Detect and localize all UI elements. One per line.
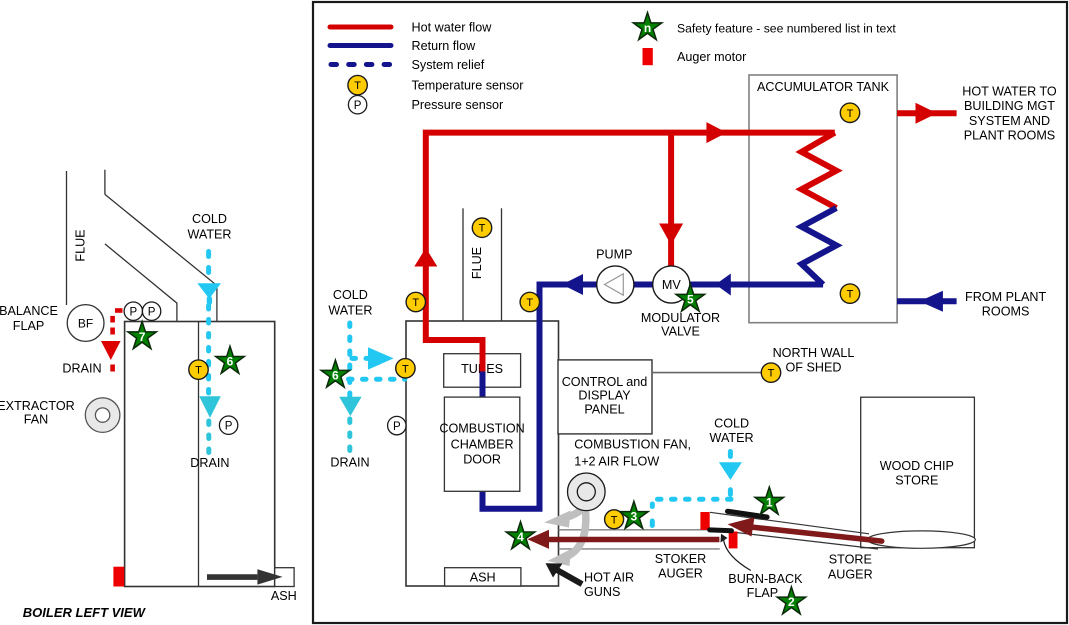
svg-text:FROM PLANT: FROM PLANT: [965, 290, 1046, 304]
svg-text:STORE: STORE: [895, 473, 938, 487]
label MODULATOR VALVE: [641, 311, 720, 339]
left view flue wall left: [66, 171, 68, 305]
pump circle: [597, 266, 634, 303]
store auger tube upper line: [710, 512, 869, 534]
svg-text:ASH: ASH: [470, 571, 496, 585]
burn-back flap red block lower: [729, 532, 738, 549]
relief dashed below arrow: [347, 419, 352, 453]
cold water dashed horizontal into boiler: [352, 356, 368, 361]
svg-text:STORE: STORE: [829, 553, 872, 567]
safety star 1: [755, 487, 784, 514]
label HOT AIR GUNS: [584, 571, 634, 600]
air flow curved arrow lower: [548, 510, 586, 566]
svg-text:CHAMBER: CHAMBER: [451, 437, 514, 451]
label EXTRACTOR FAN: [0, 399, 75, 427]
blue pipe segment through tubes box: [480, 372, 486, 399]
svg-text:T: T: [526, 297, 533, 309]
burn-back flap open position: [728, 511, 767, 517]
extractor fan: [85, 398, 120, 433]
left view internal wall: [198, 322, 200, 587]
left view flue duct outer diagonal: [105, 194, 217, 321]
svg-text:COMBUSTION: COMBUSTION: [439, 421, 524, 435]
svg-text:T: T: [402, 363, 409, 375]
svg-text:WATER: WATER: [710, 431, 754, 445]
safety star 3: [620, 501, 649, 528]
safety star 4: [506, 522, 535, 549]
svg-text:SYSTEM AND: SYSTEM AND: [969, 114, 1050, 128]
svg-text:6: 6: [332, 368, 339, 382]
svg-text:GUNS: GUNS: [584, 585, 620, 599]
svg-text:AUGER: AUGER: [828, 568, 873, 582]
tank coil hot (red zigzag): [802, 133, 837, 208]
return pipe from plant rooms: [897, 298, 957, 304]
arrowhead branch down: [659, 224, 683, 246]
svg-text:2: 2: [788, 595, 795, 609]
relief dashed vertical to stoker: [650, 504, 655, 526]
svg-text:P: P: [225, 420, 233, 432]
cold water dashed left view upper: [206, 252, 211, 273]
svg-text:PANEL: PANEL: [584, 403, 624, 417]
svg-text:WOOD CHIP: WOOD CHIP: [880, 459, 954, 473]
svg-text:FLAP: FLAP: [13, 319, 45, 333]
svg-text:DISPLAY: DISPLAY: [578, 389, 631, 403]
svg-text:BURN-BACK: BURN-BACK: [728, 572, 803, 586]
tubes box: [444, 354, 521, 388]
svg-text:1: 1: [766, 495, 773, 509]
store auger tube lower line: [710, 530, 878, 550]
cold water dashed left view through boiler: [206, 306, 211, 395]
air flow curved arrow upper: [544, 505, 587, 528]
svg-text:P: P: [393, 421, 401, 433]
hot water main pipe (boiler to tank): [426, 133, 835, 378]
svg-text:STOKER: STOKER: [655, 552, 707, 566]
hot water outlet pipe to building: [897, 110, 957, 116]
legend safety feature star n: [633, 13, 662, 40]
svg-text:BOILER LEFT VIEW: BOILER LEFT VIEW: [23, 605, 147, 620]
stoker auger tube: [559, 530, 720, 549]
left view boiler body: [125, 322, 275, 587]
svg-text:PUMP: PUMP: [596, 248, 632, 262]
T sensor tank top: [840, 103, 859, 122]
svg-text:CONTROL and: CONTROL and: [562, 375, 648, 389]
cold water arrow into boiler: [368, 347, 394, 369]
svg-text:Pressure sensor: Pressure sensor: [412, 98, 504, 112]
label HOT WATER TO BUILDING: [962, 85, 1057, 143]
svg-text:BALANCE: BALANCE: [0, 304, 58, 318]
arrowhead from plant rooms: [919, 291, 943, 312]
flue walls: [462, 208, 464, 321]
label STORE AUGER: [828, 553, 873, 582]
wood chip store box: [861, 397, 975, 548]
label WOOD CHIP STORE: [880, 459, 954, 487]
P sensors pair: [124, 302, 142, 320]
svg-text:HOT WATER TO: HOT WATER TO: [962, 85, 1057, 99]
T sensor stoker: [605, 510, 624, 529]
arrowhead hot pipe right into tank: [706, 122, 726, 143]
svg-text:4: 4: [517, 530, 524, 544]
left view flue duct inner diagonal: [105, 244, 177, 322]
label COMBUSTION CHAMBER DOOR: [439, 421, 524, 466]
sensor lead to north wall: [652, 372, 761, 374]
svg-text:5: 5: [687, 292, 694, 306]
T sensor on return pipe: [520, 292, 539, 311]
svg-text:WATER: WATER: [328, 303, 372, 317]
legend return flow line: [330, 43, 391, 48]
burn-back flap closed position: [710, 527, 732, 533]
svg-text:FLAP: FLAP: [747, 586, 779, 600]
svg-text:MV: MV: [662, 278, 681, 292]
relief dashed horizontal right: [658, 497, 732, 502]
svg-text:T: T: [195, 365, 202, 377]
safety star 7: [128, 322, 157, 349]
svg-text:ACCUMULATOR TANK: ACCUMULATOR TANK: [757, 80, 890, 94]
svg-text:Temperature sensor: Temperature sensor: [412, 79, 524, 93]
svg-text:VALVE: VALVE: [661, 324, 700, 338]
svg-text:T: T: [611, 514, 618, 526]
arrowhead hot water outlet: [916, 103, 938, 124]
legend temperature sensor symbol: [348, 75, 367, 94]
svg-text:COLD: COLD: [192, 212, 227, 226]
legend system relief dashed line: [331, 62, 390, 67]
svg-text:ROOMS: ROOMS: [982, 305, 1030, 319]
svg-text:System relief: System relief: [412, 58, 485, 72]
arrowhead return pipe at tank side: [716, 274, 731, 296]
svg-text:DOOR: DOOR: [463, 453, 501, 467]
control and display panel box: [558, 360, 652, 434]
label CONTROL and DISPLAY PANEL: [562, 375, 648, 417]
svg-text:T: T: [354, 80, 361, 92]
tank coil return (blue zigzag): [802, 208, 837, 285]
label COLD WATER right: [710, 417, 754, 445]
legend pressure sensor symbol: [348, 96, 366, 114]
combustion chamber door box: [444, 397, 519, 491]
hot pipe branch down to modulator valve: [668, 133, 674, 267]
cold water dashed below arrow right: [728, 490, 733, 495]
svg-text:BUILDING MGT: BUILDING MGT: [964, 99, 1055, 113]
arrowhead stoker auger: [527, 530, 549, 549]
label BALANCE FLAP: [0, 304, 58, 333]
safety star 6 main: [321, 360, 350, 387]
relief arrow down left view: [199, 396, 221, 418]
svg-text:T: T: [847, 289, 854, 301]
svg-text:COLD: COLD: [714, 417, 749, 431]
arrowhead store auger: [728, 517, 755, 536]
legend auger motor symbol: [643, 48, 653, 65]
balance flap circle BF: [67, 305, 104, 342]
modulator valve circle MV: [653, 266, 690, 303]
label BURN-BACK FLAP: [728, 572, 803, 600]
cold water arrow left view: [197, 283, 221, 305]
label STOKER AUGER: [655, 552, 707, 581]
label FROM PLANT ROOMS: [965, 290, 1046, 319]
ash box main: [445, 568, 521, 586]
relief dashed horizontal: [335, 377, 405, 382]
safety star 2: [777, 587, 806, 614]
label COLD WATER main: [328, 288, 372, 317]
ash box left view: [275, 568, 294, 587]
svg-text:DRAIN: DRAIN: [62, 362, 101, 376]
svg-text:1+2 AIR FLOW: 1+2 AIR FLOW: [574, 454, 659, 468]
svg-text:WATER: WATER: [187, 227, 231, 241]
svg-text:OF SHED: OF SHED: [786, 360, 842, 374]
store auger end ellipse: [867, 531, 975, 548]
svg-text:P: P: [354, 100, 362, 112]
svg-text:Auger motor: Auger motor: [677, 50, 746, 64]
svg-text:6: 6: [227, 355, 234, 369]
svg-text:EXTRACTOR: EXTRACTOR: [0, 399, 75, 413]
svg-text:PLANT ROOMS: PLANT ROOMS: [964, 128, 1055, 142]
T sensor tank bottom: [840, 284, 859, 303]
combustion fan: [568, 473, 606, 511]
svg-text:Hot water flow: Hot water flow: [412, 21, 493, 35]
svg-text:DRAIN: DRAIN: [330, 456, 369, 470]
frame of main diagram: [313, 2, 1067, 623]
svg-text:FLUE: FLUE: [74, 229, 88, 261]
safety star 6 left view: [216, 346, 245, 373]
pointer to burn-back flap: [721, 534, 751, 571]
stoker auger shaft: [549, 537, 719, 542]
label COMBUSTION FAN 1+2 AIR FLOW: [574, 438, 691, 469]
balance flap drain dashed red: [113, 311, 123, 372]
svg-text:P: P: [129, 306, 137, 318]
accumulator tank: [749, 75, 897, 323]
svg-text:BF: BF: [78, 317, 93, 331]
svg-text:ASH: ASH: [271, 589, 297, 603]
arrowhead return pipe before corner: [562, 274, 583, 295]
svg-text:COLD: COLD: [333, 288, 368, 302]
relief dashed below left view: [206, 421, 211, 453]
label NORTH WALL OF SHED: [773, 346, 855, 375]
label COLD WATER left view: [187, 212, 231, 241]
svg-text:HOT AIR: HOT AIR: [584, 571, 634, 585]
hot air guns arrow: [546, 563, 583, 584]
T sensor north wall: [761, 363, 780, 382]
T sensor cold water inlet: [396, 359, 415, 378]
svg-text:FAN: FAN: [24, 412, 49, 426]
svg-text:7: 7: [139, 330, 146, 344]
red drain arrow: [101, 341, 121, 360]
cold water arrow down right: [719, 462, 742, 480]
cold water dashed right vertical: [728, 452, 733, 457]
svg-text:MODULATOR: MODULATOR: [641, 311, 720, 325]
left view flue wall right: [104, 170, 106, 195]
svg-text:DRAIN: DRAIN: [190, 456, 229, 470]
svg-text:COMBUSTION FAN,: COMBUSTION FAN,: [574, 438, 691, 452]
svg-text:NORTH WALL: NORTH WALL: [773, 346, 855, 360]
P sensor left view right: [219, 416, 237, 434]
red block left view: [113, 567, 124, 587]
T sensor flue: [472, 218, 491, 237]
T sensor left view: [189, 360, 208, 379]
svg-text:T: T: [847, 108, 854, 120]
svg-text:Return flow: Return flow: [412, 39, 477, 53]
svg-text:n: n: [644, 21, 651, 35]
arrowhead hot pipe up: [414, 248, 437, 267]
svg-text:P: P: [148, 306, 156, 318]
return pipe (tank to boiler via valve and pump): [483, 285, 824, 509]
svg-text:Safety feature - see numbered: Safety feature - see numbered list in te…: [677, 22, 896, 36]
boiler body (plan view): [406, 321, 559, 586]
store auger shaft: [752, 527, 882, 541]
svg-text:AUGER: AUGER: [658, 567, 703, 581]
P sensor boiler: [388, 416, 406, 434]
cold water dashed feed (vertical): [347, 323, 352, 396]
svg-text:T: T: [412, 297, 419, 309]
ash flow arrow: [207, 569, 283, 584]
svg-text:3: 3: [631, 510, 638, 524]
burn-back flap red block upper: [700, 512, 709, 530]
svg-text:FLUE: FLUE: [470, 247, 484, 279]
safety star 5: [676, 284, 705, 311]
svg-text:T: T: [479, 223, 486, 235]
legend hot water flow line: [330, 25, 391, 30]
relief arrow down to drain: [339, 397, 361, 416]
T sensor on hot pipe: [406, 292, 425, 311]
red pipe segment over tubes box: [480, 352, 486, 372]
svg-text:T: T: [768, 368, 775, 380]
